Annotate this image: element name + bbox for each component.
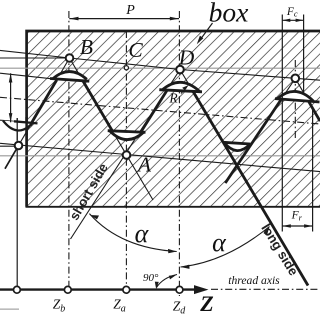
root V0: lens bbox=[0, 120, 38, 130]
flank V2-P3 ext bbox=[225, 78, 295, 183]
crest B: lens bbox=[50, 72, 89, 82]
centerline P3 bbox=[294, 60, 296, 140]
svg-text:90°: 90° bbox=[143, 272, 159, 284]
thin root taper line through V0 A V2 bbox=[0, 143, 320, 171]
root V2: lens bbox=[223, 142, 250, 150]
thin horizontal through B bbox=[0, 57, 70, 59]
R leader bbox=[181, 88, 187, 94]
svg-text:α: α bbox=[212, 228, 227, 257]
Fr dimension arrows bbox=[282, 225, 312, 227]
Fc dimension arrows bbox=[282, 19, 303, 21]
svg-text:P: P bbox=[125, 3, 135, 18]
thin horizontal through V0 bbox=[0, 145, 19, 147]
centerline B bbox=[68, 11, 70, 290]
thin flank apex lines bbox=[5, 58, 320, 286]
svg-text:α: α bbox=[135, 219, 150, 248]
svg-text:A: A bbox=[136, 153, 152, 177]
box outline bbox=[27, 31, 320, 207]
svg-text:Z: Z bbox=[199, 291, 213, 316]
svg-text:D: D bbox=[178, 46, 195, 70]
thin crest-chord extension line bbox=[0, 73, 51, 79]
gray horizontal line through C,D bbox=[0, 67, 320, 69]
alpha1 arc bbox=[89, 214, 176, 252]
90 deg arc bbox=[157, 275, 178, 288]
thick flank segments bbox=[30, 80, 320, 286]
Fc/Fr extension verticals bbox=[281, 15, 283, 232]
svg-text:Fc: Fc bbox=[286, 6, 298, 19]
flank B-A ext bbox=[70, 58, 154, 200]
thin root-chord extension line V0 bbox=[0, 120, 14, 121]
alpha2 arc bbox=[181, 227, 270, 268]
long side thick bbox=[193, 91, 308, 286]
hatched box section bbox=[27, 31, 320, 207]
svg-text:C: C bbox=[128, 38, 143, 62]
circles bbox=[14, 54, 300, 293]
flank A-D ext: short side line bbox=[71, 70, 181, 240]
root A: lens bbox=[108, 131, 146, 140]
flank P3-V3 bbox=[295, 78, 320, 121]
V0 extension medium bbox=[5, 146, 19, 169]
dash-dot pitch line bbox=[0, 97, 320, 124]
centerline A bbox=[125, 31, 127, 290]
flank V0-B with extension below V0 bbox=[5, 58, 70, 169]
crest P3: lens bbox=[275, 91, 320, 102]
Z axis bbox=[0, 288, 196, 290]
svg-text:Fr: Fr bbox=[291, 210, 303, 223]
P dimension bbox=[69, 18, 179, 20]
svg-text:B: B bbox=[80, 35, 93, 59]
svg-text:box: box bbox=[209, 0, 249, 28]
flank D-V2 bbox=[180, 70, 308, 286]
thin crest taper line through B D P3 bbox=[0, 50, 320, 80]
crest D: lens bbox=[159, 82, 202, 91]
svg-text:R: R bbox=[168, 91, 178, 106]
gray stub bottom-left bbox=[0, 308, 19, 310]
svg-text:thread axis: thread axis bbox=[228, 274, 280, 287]
box leader bbox=[199, 23, 213, 42]
solid vertical through V0 bbox=[16, 118, 18, 290]
gray horizontal line through A bbox=[0, 155, 320, 157]
left height dimension bbox=[10, 73, 12, 122]
centerline D bbox=[178, 11, 180, 296]
